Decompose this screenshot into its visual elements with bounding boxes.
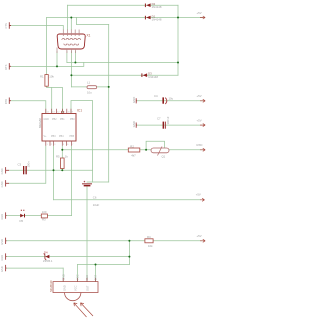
arrow row B: [200, 124, 205, 127]
wire row y183.3: [9, 182, 45, 184]
svg-text:+5V: +5V: [197, 234, 202, 238]
svg-text:GND: GND: [132, 121, 136, 127]
resistor R5 below IC: [56, 154, 68, 168]
IC1 pin numbers: [47, 111, 75, 146]
wire vmain x108.7: [108, 25, 110, 183]
flag GND y170.3: [0, 167, 9, 174]
wire F1 row y25.5: [11, 26, 63, 30]
svg-text:GND: GND: [63, 285, 67, 291]
svg-text:SFH5110: SFH5110: [49, 280, 53, 292]
svg-text:100n: 100n: [27, 161, 31, 168]
svg-text:10uF: 10uF: [93, 203, 100, 207]
wire jog row y199.8 long: [54, 199, 201, 201]
node A pin: [74, 62, 76, 64]
svg-text:+5V: +5V: [197, 11, 202, 15]
flag GND y240.8: [0, 238, 6, 245]
wire fuse row jog: [146, 141, 164, 150]
svg-text:+5V: +5V: [196, 192, 201, 196]
X1 pin stubs bottom: [57, 48, 75, 54]
svg-text:Q1: Q1: [162, 155, 166, 159]
wire row y240.8: [7, 240, 145, 242]
flag GND y183.3: [0, 180, 9, 187]
wire VCC drop x77.5: [77, 265, 79, 282]
node row2/+5V: [177, 17, 179, 19]
arrow +5V row2: [200, 16, 205, 19]
capacitor C3: [18, 161, 31, 174]
svg-text:1N4148: 1N4148: [152, 18, 162, 22]
svg-text:GND: GND: [132, 97, 136, 103]
flag GND y256.6: [0, 253, 6, 260]
wire IC pin2 drop x51.7: [51, 88, 53, 114]
node B pin: [56, 65, 58, 67]
svg-text:RXD: RXD: [197, 143, 203, 147]
wire line A y62.4: [67, 62, 178, 64]
svg-text:10u: 10u: [169, 97, 174, 101]
svg-text:DAT: DAT: [94, 275, 98, 280]
wire resistor bottom x62.3: [61, 169, 63, 171]
wire zener row y256.6: [7, 256, 130, 258]
wire fuse row y149.8: [62, 149, 202, 151]
wire pin riser x71.4 to D3 row and capsule: [70, 52, 72, 87]
svg-text:L1: L1: [87, 81, 91, 85]
svg-text:PB0: PB0: [70, 118, 75, 121]
U1 pin name labels above: [61, 274, 97, 280]
node fuse row jog: [145, 149, 147, 151]
wire F3 row y100.7: [11, 101, 46, 114]
node row264.5 data: [95, 264, 97, 266]
U1 IR arrows: [74, 303, 93, 317]
svg-text:VCC: VCC: [73, 285, 77, 291]
node D3 row: [70, 74, 72, 76]
wire row2: [47, 17, 203, 19]
svg-text:D5: D5: [20, 219, 24, 223]
wire row240 resistor to arrow: [154, 240, 203, 242]
node y170 x53.5: [53, 169, 55, 171]
svg-text:CTS: CTS: [4, 23, 8, 28]
svg-text:D4: D4: [44, 250, 48, 254]
svg-text:C7: C7: [157, 117, 161, 121]
inductor L1 capsule: [87, 81, 97, 95]
svg-text:1N4148: 1N4148: [148, 75, 158, 79]
svg-text:VCC: VCC: [76, 274, 80, 280]
arrow row 240.8: [200, 239, 205, 242]
wire DATA drop x95.5: [95, 265, 97, 282]
resistor R1 vertical: [40, 75, 54, 87]
wire line B y66.3: [11, 63, 84, 67]
svg-text:DTR: DTR: [4, 99, 8, 104]
svg-text:PB2: PB2: [52, 118, 57, 121]
IC1 box: [38, 109, 82, 142]
IC1 pin names: [44, 118, 76, 138]
svg-text:C6: C6: [93, 196, 97, 200]
wire R1 bottom link y88.8: [47, 86, 63, 113]
resistor R4 row 240.8: [145, 235, 153, 248]
wire GND drop x63.2: [62, 268, 64, 282]
svg-text:RTS: RTS: [4, 64, 8, 69]
arrow fuse row: [200, 148, 205, 151]
svg-text:10k: 10k: [49, 75, 54, 79]
node A/+5V: [177, 62, 179, 64]
svg-text:GND: GND: [0, 214, 4, 220]
svg-text:GND: GND: [44, 118, 50, 121]
wire IC pin drop x71.5: [71, 146, 73, 216]
svg-text:+5V: +5V: [197, 118, 202, 122]
node zener row x129.4: [128, 256, 130, 258]
svg-text:PB1: PB1: [60, 118, 65, 121]
svg-text:C3: C3: [18, 163, 22, 167]
svg-text:C4: C4: [154, 94, 158, 98]
fuse F1 capsule: [151, 147, 169, 159]
wire IC pin drop x45.8: [45, 146, 47, 183]
X1 contacts: [62, 38, 81, 45]
svg-text:PB5: PB5: [70, 135, 75, 138]
zener D4 row 256.6: [43, 250, 53, 263]
node capsule right: [108, 86, 110, 88]
IC1 inversion bubble: [61, 111, 63, 113]
svg-text:GND: GND: [61, 274, 65, 280]
svg-text:4k7: 4k7: [131, 154, 136, 158]
wire row y268.1: [7, 267, 64, 269]
flag F2 left y66.3: [4, 63, 11, 70]
svg-text:R5: R5: [56, 154, 60, 158]
wire row1 top: [67, 4, 178, 6]
wire D3 row y74.2: [71, 74, 178, 76]
svg-text:GND: GND: [0, 266, 4, 272]
U1 pin names inside: [63, 285, 90, 291]
svg-text:GND: GND: [0, 181, 4, 187]
svg-text:10k: 10k: [148, 244, 153, 248]
flag GND y268.1: [0, 265, 6, 272]
connector X1 DB9: [57, 34, 85, 49]
svg-text:CLK: CLK: [85, 275, 89, 280]
wire row2 pin drop: [70, 18, 72, 30]
resistor R3 row 215.6: [41, 210, 47, 221]
IC1 top stubs: [46, 109, 71, 114]
wire y182 link: [87, 181, 109, 183]
GND flag row A: [132, 97, 137, 104]
diode D3: [141, 72, 158, 79]
X1 pin stubs top: [63, 30, 79, 37]
electrolytic cap C6 mid: [82, 181, 99, 207]
node y170 x62.3: [61, 169, 63, 171]
arrow long row: [200, 198, 205, 201]
wire x53.5 to jog row: [53, 170, 55, 200]
svg-text:PB4: PB4: [59, 135, 64, 138]
flag F1 left y25.5: [4, 22, 11, 28]
svg-text:MEGA8: MEGA8: [38, 118, 42, 128]
wire IC pin drop x62.3 to resistor: [61, 146, 63, 158]
flag F3 left y100.7: [4, 98, 11, 105]
flag GND y215.6: [0, 212, 6, 219]
IR receiver U1 SFH5110: [49, 280, 98, 301]
elco C4 row A: [154, 94, 174, 104]
svg-text:OUT: OUT: [86, 285, 90, 291]
wire row2 corner down to R1: [46, 18, 48, 75]
diode D2: [145, 2, 162, 9]
svg-text:R4: R4: [147, 235, 151, 239]
svg-text:100: 100: [42, 210, 47, 214]
svg-text:R3: R3: [42, 218, 46, 222]
svg-text:R2: R2: [130, 145, 134, 149]
GND flag row B: [132, 121, 137, 128]
svg-text:10u: 10u: [87, 90, 92, 94]
svg-text:X1: X1: [87, 34, 91, 38]
wire row y215.6: [7, 215, 72, 217]
wire C3 row y170.3: [9, 169, 93, 171]
node fuse row left: [61, 149, 63, 151]
svg-text:IC1: IC1: [77, 109, 82, 113]
svg-text:1N4148: 1N4148: [152, 5, 162, 9]
diode D5 row 215.6: [20, 210, 26, 223]
svg-text:PB3: PB3: [51, 135, 56, 138]
wire IC pin drop x53.5: [53, 146, 55, 170]
svg-text:GND: GND: [0, 255, 4, 261]
wire line B pin riser x58.5: [56, 52, 58, 67]
wire IC pin6 riser over to x92.5: [71, 101, 93, 183]
capacitor C7 row B: [157, 116, 170, 128]
wire pin riser x75.4: [74, 52, 76, 63]
svg-text:ZPD5.1: ZPD5.1: [43, 259, 53, 263]
svg-text:100nF: 100nF: [166, 116, 170, 124]
wire capsule leads y86.9: [71, 86, 108, 88]
arrow row A: [200, 99, 205, 102]
wire +5V vertical x178: [177, 5, 179, 75]
wire row y264.5: [78, 264, 130, 266]
svg-text:+5V: +5V: [197, 94, 202, 98]
svg-text:GND: GND: [0, 168, 4, 174]
IC1 bottom stubs: [46, 141, 72, 146]
diode D1: [145, 14, 162, 21]
wire line A left pin riser: [66, 52, 68, 63]
node row240 x129.4: [128, 240, 130, 242]
wire v129.4: [128, 241, 130, 265]
U1 pin stubs: [63, 278, 95, 282]
wire cap C6 bottom lead x87: [86, 186, 88, 281]
svg-text:R1: R1: [40, 75, 44, 79]
wire row B y125.1: [137, 124, 203, 126]
wire row A y100.8: [137, 100, 203, 102]
wire jog row2 to vmain: [76, 18, 108, 25]
resistor R2 fuse row: [128, 145, 140, 158]
node row2 pin: [70, 17, 72, 19]
wire row1 drop to DB9 pin: [66, 5, 68, 29]
svg-text:GND: GND: [0, 239, 4, 245]
